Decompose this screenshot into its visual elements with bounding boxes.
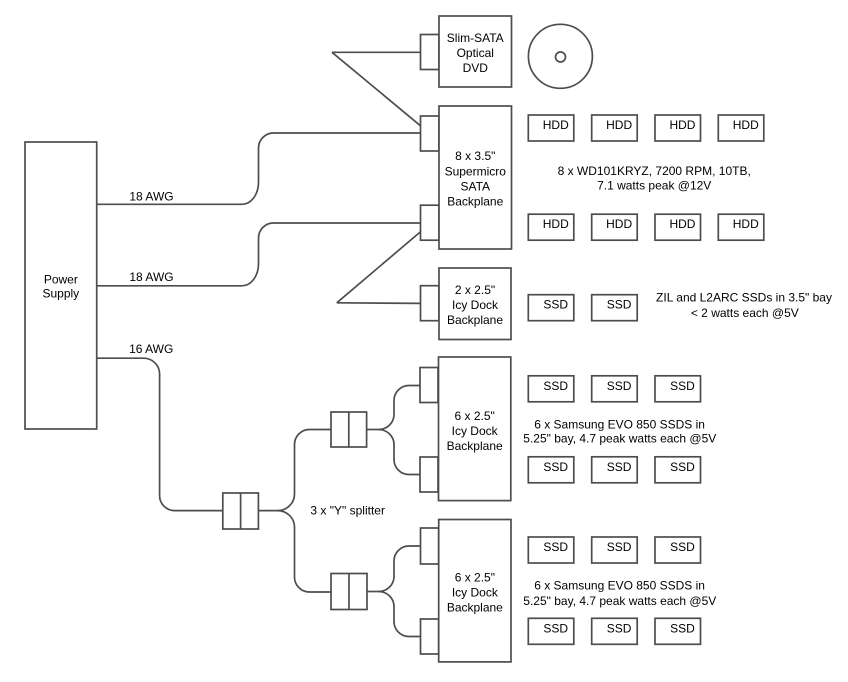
svg-text:SSD: SSD: [670, 540, 695, 554]
svg-text:8 x WD101KRYZ, 7200 RPM, 10TB,: 8 x WD101KRYZ, 7200 RPM, 10TB,: [558, 164, 751, 178]
svg-text:SSD: SSD: [607, 460, 632, 474]
svg-text:DVD: DVD: [463, 61, 489, 75]
svg-text:Backplane: Backplane: [447, 601, 503, 615]
svg-text:Backplane: Backplane: [447, 439, 503, 453]
svg-text:18 AWG: 18 AWG: [129, 270, 173, 284]
svg-text:Icy Dock: Icy Dock: [452, 298, 499, 312]
svg-text:SSD: SSD: [607, 540, 632, 554]
svg-text:Optical: Optical: [457, 46, 494, 60]
svg-text:ZIL and L2ARC SSDs in 3.5" bay: ZIL and L2ARC SSDs in 3.5" bay: [656, 291, 832, 305]
svg-text:SSD: SSD: [543, 379, 568, 393]
svg-text:Icy Dock: Icy Dock: [452, 424, 499, 438]
svg-text:6 x 2.5": 6 x 2.5": [455, 571, 495, 585]
svg-text:16 AWG: 16 AWG: [129, 342, 173, 356]
svg-text:HDD: HDD: [543, 217, 569, 231]
svg-text:HDD: HDD: [606, 217, 632, 231]
svg-text:3 x "Y" splitter: 3 x "Y" splitter: [310, 504, 385, 518]
svg-text:< 2 watts each @5V: < 2 watts each @5V: [691, 306, 799, 320]
svg-text:Backplane: Backplane: [447, 195, 503, 209]
svg-text:2 x 2.5": 2 x 2.5": [455, 283, 495, 297]
svg-text:5.25" bay, 4.7 peak watts each: 5.25" bay, 4.7 peak watts each @5V: [523, 432, 716, 446]
svg-text:7.1 watts peak @12V: 7.1 watts peak @12V: [597, 178, 711, 192]
svg-text:SSD: SSD: [670, 621, 695, 635]
svg-text:HDD: HDD: [733, 217, 759, 231]
svg-text:Supply: Supply: [42, 286, 79, 300]
svg-text:HDD: HDD: [669, 118, 695, 132]
svg-text:SSD: SSD: [543, 460, 568, 474]
svg-text:18 AWG: 18 AWG: [129, 190, 173, 204]
svg-text:SSD: SSD: [607, 621, 632, 635]
svg-text:5.25" bay, 4.7 peak watts each: 5.25" bay, 4.7 peak watts each @5V: [523, 594, 716, 608]
svg-text:SSD: SSD: [607, 298, 632, 312]
svg-text:Backplane: Backplane: [447, 313, 503, 327]
svg-text:SSD: SSD: [543, 298, 568, 312]
svg-text:SSD: SSD: [543, 621, 568, 635]
svg-text:Power: Power: [44, 272, 78, 286]
svg-text:HDD: HDD: [733, 118, 759, 132]
svg-text:6 x Samsung EVO 850 SSDS in: 6 x Samsung EVO 850 SSDS in: [534, 578, 705, 592]
svg-text:SATA: SATA: [460, 180, 490, 194]
svg-text:HDD: HDD: [669, 217, 695, 231]
svg-text:HDD: HDD: [606, 118, 632, 132]
svg-text:SSD: SSD: [670, 379, 695, 393]
svg-text:HDD: HDD: [543, 118, 569, 132]
svg-text:SSD: SSD: [543, 540, 568, 554]
svg-text:6 x 2.5": 6 x 2.5": [455, 409, 495, 423]
svg-text:8 x 3.5": 8 x 3.5": [455, 149, 495, 163]
svg-text:Slim-SATA: Slim-SATA: [447, 31, 504, 45]
svg-text:Supermicro: Supermicro: [445, 164, 507, 178]
svg-text:6 x Samsung EVO 850 SSDS in: 6 x Samsung EVO 850 SSDS in: [534, 417, 705, 431]
svg-text:SSD: SSD: [670, 460, 695, 474]
svg-text:SSD: SSD: [607, 379, 632, 393]
svg-text:Icy Dock: Icy Dock: [452, 586, 499, 600]
